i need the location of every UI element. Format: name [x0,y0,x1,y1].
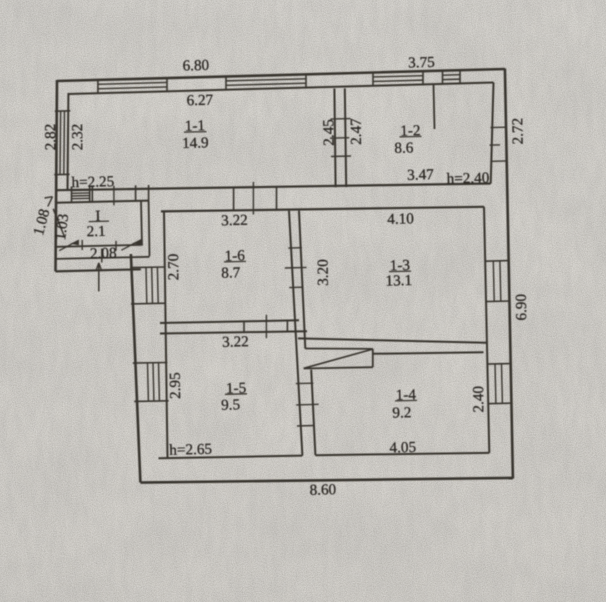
stair flag symbol right [116,240,141,251]
door 1-1 to vestibule: right jamb line [91,186,93,202]
wall: west exterior room 1-1 inner line [67,93,70,191]
stairs: tread line 1 [56,245,141,247]
entrance arrow (up) [96,263,102,292]
svg-text:2.47: 2.47 [348,118,365,145]
door partition 1-1/1-2: lower tick [331,155,351,158]
window room 1-1 north (right) [226,74,306,91]
vestibule band: pier box right line [148,185,150,201]
svg-text:3.20: 3.20 [315,259,332,286]
room label 1-6 underline [224,260,246,263]
door 1-5 to 1-4: upper tick [296,382,314,384]
svg-text:8.60: 8.60 [309,481,336,499]
wall: room 1-4 north line [373,352,484,354]
stair flag symbol left [59,240,82,251]
svg-text:8.7: 8.7 [221,264,241,282]
wall: vestibule right wall line a [141,201,142,246]
wall: vestibule right wall line b [148,201,151,257]
hatch box: diagonal [304,349,373,368]
hatch box: right edge [372,349,374,367]
room label 1-4 underline [395,399,417,402]
window/vent room 1-2 east ticks [490,127,507,161]
svg-text:3.75: 3.75 [408,54,435,72]
svg-text:6.80: 6.80 [182,57,209,75]
wall: room 1-5 north line [160,331,307,333]
hatch box: top line [305,348,373,350]
svg-text:2.82: 2.82 [42,124,59,151]
door 1-6 to 1-5: left jamb [243,321,245,333]
window room 1-2 north (narrow) [443,70,461,85]
door 1-6 to 1-3: middle long tick [285,266,307,269]
svg-text:2.40: 2.40 [470,385,487,412]
wall: room 1-6 south line [160,320,299,323]
svg-text:9.2: 9.2 [392,404,411,421]
dimension tick on stairs line at 2.08 [101,249,103,263]
svg-text:1.03: 1.03 [52,213,72,241]
window room 1-5 west [133,363,169,402]
window room 1-1 west [54,111,70,175]
wall: west exterior (room 1-1 / vestibule) outer line [56,80,58,271]
door 1-1 to 1-6: left jamb [233,188,235,210]
wall: room 1-4 west inner line [311,370,315,456]
wall: west exterior lower outer line [131,254,141,482]
svg-text:14.9: 14.9 [182,134,209,152]
door 1-1 to vestibule: hatched leaf box [72,186,90,202]
window room 1-2 north (wide) [373,71,423,87]
wall: south exterior outer line [140,478,513,483]
svg-text:8.6: 8.6 [394,139,414,157]
svg-text:2.45: 2.45 [320,119,337,146]
door 1-5 to 1-4: lower tick [297,425,314,428]
wall: room 1-3 south line [298,338,487,342]
svg-text:2.95: 2.95 [167,372,184,399]
wall: east exterior outer line [505,69,513,479]
door 1-6 to 1-5: right jamb [286,320,288,332]
window room 1-1 north (left) [98,78,167,94]
svg-text:3.47: 3.47 [407,166,434,184]
room label I underline [89,220,109,223]
svg-text:6.27: 6.27 [186,92,213,110]
wall: north wall of rooms 1-6/1-3 (band bottom line) [161,207,484,212]
room label 1-1 underline [184,131,207,134]
wall: north exterior inner line [68,83,493,95]
wall: north exterior outer line [57,69,505,81]
svg-text:3.22: 3.22 [221,212,248,230]
wall: partition 1-1/1-2 right line [345,88,346,187]
svg-text:2.08: 2.08 [90,245,117,263]
wall: partition 1-6/1-3 right line [299,211,305,349]
wall: room 1-4 south inner line [315,453,489,455]
door partition 1-1/1-2: middle long tick [330,137,349,140]
svg-text:4.05: 4.05 [389,439,416,457]
window room 1-3 east [485,261,511,302]
dimension slash near 1.08 [53,209,65,238]
svg-text:3.22: 3.22 [222,333,249,351]
window room 1-4 east [487,364,513,404]
door 1-1 to 1-6: dimension tick [252,182,254,215]
small mark 7-shape left of h=2.25 [45,197,53,207]
vestibule band: pier box left line [135,185,137,201]
svg-text:13.1: 13.1 [385,272,412,290]
wall: room 1-5 south inner line [159,456,303,459]
wall: west exterior lower inner line [164,212,168,459]
wall: partition 1-6/1-3 and 1-5/1-4 left line [289,211,302,456]
door partition 1-1/1-2: upper tick [331,118,351,121]
window room 1-6 west [130,267,166,304]
wall: east exterior lower inner line [484,207,489,453]
svg-text:h=2.65: h=2.65 [169,441,212,459]
door 1-6 to 1-3: lower tick [289,286,303,288]
room label 1-2 underline [400,135,422,138]
room label 1-3 underline [389,270,411,273]
svg-text:6.90: 6.90 [513,293,530,320]
vestibule band: tick [113,186,115,206]
svg-text:9.5: 9.5 [221,396,240,413]
door 1-1 to 1-6: right jamb [276,187,278,209]
leader line from 3.75 pier into room 1-2 [434,85,435,129]
hatch box: bottom line [304,367,373,368]
wall: vestibule top line [56,201,149,203]
door 1-6 to 1-5: dimension tick [265,315,267,338]
wall: south wall of rooms 1-1/1-2 (band top line) [56,184,491,191]
svg-text:2.32: 2.32 [69,124,86,151]
wall: partition 1-1/1-2 left line [334,89,335,188]
room label 1-5 underline [225,393,247,396]
svg-text:2.72: 2.72 [509,118,526,145]
svg-text:2.1: 2.1 [86,223,105,240]
svg-text:h=2.40: h=2.40 [446,169,490,187]
svg-text:h=2.25: h=2.25 [71,173,114,191]
door 1-6 to 1-3: upper tick [288,247,302,249]
svg-text:2.70: 2.70 [165,253,182,280]
wall: east exterior room 1-2 inner line [491,83,494,184]
stairs: bottom outer line [56,269,141,271]
svg-text:4.10: 4.10 [387,210,414,228]
stairs: tread line 2 / dim line 2.08 [56,257,150,259]
door 1-5 to 1-4: middle long tick [296,403,318,406]
